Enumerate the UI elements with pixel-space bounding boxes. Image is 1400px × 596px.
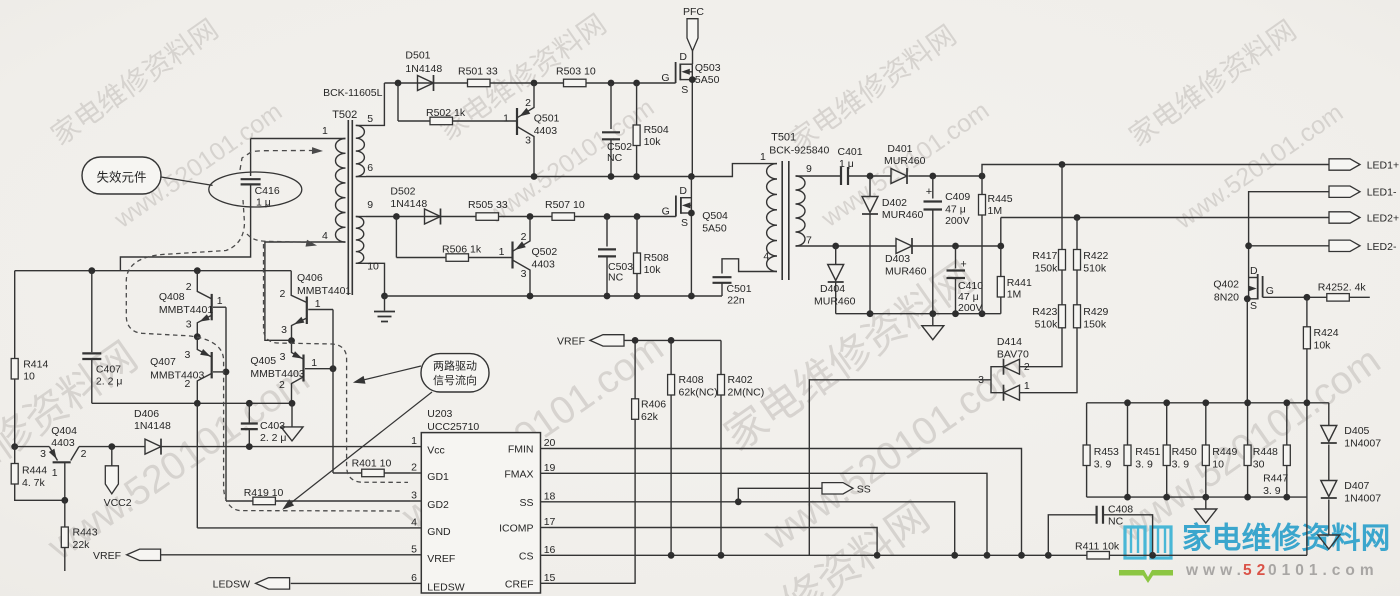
wire LED2+ line [1001, 217, 1329, 219]
wire ch1 bottom rail [366, 164, 777, 177]
resistor R502 [398, 107, 516, 125]
wire ch2 bottom rail [385, 295, 723, 297]
svg-text:4403: 4403 [534, 125, 558, 137]
wire CREF line [549, 420, 635, 584]
node T502 pin10 gnd [381, 293, 388, 300]
resistor R445 [979, 176, 1013, 314]
ground secondary [922, 314, 944, 340]
connector PFC [683, 6, 704, 51]
wire D414 cathodes [809, 367, 1003, 556]
resistor R425 [1318, 282, 1370, 302]
svg-text:5A50: 5A50 [702, 223, 727, 235]
node Q501 collector [531, 80, 538, 87]
connector VCC2 [104, 447, 132, 509]
wire SS line [549, 502, 955, 556]
wire CS line [549, 554, 1087, 556]
node C409 bottom [929, 310, 936, 317]
node D404 top [832, 243, 839, 250]
svg-text:Q404: Q404 [51, 425, 77, 437]
node D402 bottom [867, 310, 874, 317]
svg-text:R447: R447 [1263, 473, 1288, 485]
svg-text:MMBT4403: MMBT4403 [150, 370, 204, 382]
svg-text:R501 33: R501 33 [458, 66, 498, 78]
mosfet Q402 [1213, 265, 1274, 312]
node LED2- tap [1245, 242, 1252, 249]
svg-text:T502: T502 [332, 109, 357, 121]
svg-text:1N4148: 1N4148 [390, 198, 427, 210]
resistor R506 [396, 244, 511, 262]
wire Q402 gate [1263, 296, 1327, 298]
node bank t4 [1244, 399, 1251, 406]
diode D414 pin2 [1004, 359, 1030, 375]
svg-text:1: 1 [52, 467, 58, 479]
svg-text:两路驱动: 两路驱动 [433, 360, 477, 373]
svg-text:62k(NC): 62k(NC) [679, 387, 718, 399]
connector LED1+ [1329, 159, 1399, 172]
svg-text:G: G [662, 206, 670, 218]
node bank t1 [1124, 399, 1131, 406]
svg-text:3: 3 [40, 448, 46, 460]
resistor R424 [1303, 297, 1338, 403]
svg-text:D403: D403 [885, 253, 910, 265]
svg-text:2M(NC): 2M(NC) [728, 387, 765, 399]
transformer T501 label [769, 131, 829, 156]
svg-text:R424: R424 [1314, 327, 1339, 339]
wire GND column [196, 403, 198, 528]
svg-text:3. 9: 3. 9 [1172, 459, 1190, 471]
resistor R508 [634, 217, 669, 297]
wire GD1 line [333, 458, 410, 477]
svg-text:R441: R441 [1007, 277, 1032, 289]
capacitor C410 [947, 246, 984, 314]
node R445 top [979, 173, 986, 180]
wire LEDSW line [291, 582, 410, 584]
svg-text:FMIN: FMIN [508, 444, 534, 456]
svg-text:3: 3 [280, 351, 286, 363]
resistor R411 [1075, 541, 1307, 560]
resistor R507 [545, 199, 585, 220]
resistor R423 [1032, 270, 1065, 331]
capacitor C503 [598, 217, 633, 297]
wire Vcc mid [79, 446, 145, 448]
node Vcc-left [11, 443, 18, 450]
resistor R419 [244, 487, 410, 505]
wire T502 pin1 to C416 [251, 138, 346, 140]
node lower rail Q407 [194, 400, 201, 407]
svg-text:MMBT4401: MMBT4401 [297, 285, 351, 297]
svg-text:1: 1 [760, 151, 766, 163]
resistor R444 [11, 447, 65, 501]
wire Q408/Q407 base column [225, 307, 227, 501]
svg-text:2: 2 [1024, 361, 1030, 373]
resistor R417 [1032, 165, 1065, 275]
wire T502 pin4 [265, 242, 346, 340]
svg-text:R445: R445 [988, 193, 1013, 205]
pin 10 T502 [367, 261, 379, 273]
ic U203 pins [410, 435, 556, 593]
node C410 top [952, 243, 959, 250]
svg-text:G: G [661, 72, 669, 84]
svg-text:4: 4 [322, 230, 328, 242]
svg-text:MMBT4401: MMBT4401 [159, 304, 213, 316]
svg-text:MUR460: MUR460 [814, 296, 856, 308]
svg-text:VREF: VREF [557, 335, 585, 347]
node VREF2 b [668, 337, 675, 344]
svg-text:www.: www. [1185, 562, 1246, 579]
resistor R451 [1124, 403, 1161, 497]
svg-text:3: 3 [186, 319, 192, 331]
node D402 top [867, 173, 874, 180]
resistor R450 [1163, 403, 1197, 497]
node C403-Vcc [246, 443, 253, 450]
svg-text:16: 16 [544, 544, 556, 556]
svg-text:LED1+: LED1+ [1367, 160, 1399, 172]
svg-text:20: 20 [544, 437, 556, 449]
svg-text:1: 1 [499, 246, 505, 258]
svg-text:3. 9: 3. 9 [1094, 459, 1112, 471]
svg-text:R448: R448 [1253, 446, 1278, 458]
svg-text:Q402: Q402 [1213, 279, 1239, 291]
node bank t5 [1283, 399, 1290, 406]
svg-text:2: 2 [521, 231, 527, 243]
svg-text:1 μ: 1 μ [256, 197, 271, 209]
svg-text:10k: 10k [1314, 340, 1332, 352]
svg-text:D501: D501 [405, 50, 430, 62]
svg-text:47 μ: 47 μ [945, 204, 966, 216]
diode D414 pin1 [1004, 380, 1030, 401]
node D502 anode [393, 213, 400, 220]
svg-text:1: 1 [217, 295, 223, 307]
svg-text:2: 2 [81, 448, 87, 460]
svg-text:C409: C409 [945, 191, 970, 203]
svg-text:510k: 510k [1083, 263, 1107, 275]
connector VREF left [93, 549, 161, 562]
svg-text:D: D [1250, 265, 1258, 277]
svg-text:3: 3 [281, 324, 287, 336]
diode D401 [884, 143, 926, 184]
svg-text:C401: C401 [838, 146, 863, 158]
svg-text:R417: R417 [1032, 250, 1057, 262]
pin 4 T502 [322, 230, 328, 242]
dashed flow path left loop [126, 200, 403, 511]
svg-text:1M: 1M [1007, 289, 1022, 301]
svg-text:SS: SS [519, 497, 533, 509]
svg-text:R401 10: R401 10 [352, 458, 392, 470]
svg-text:Q408: Q408 [159, 291, 185, 303]
pin 6 T502 [367, 162, 373, 174]
svg-text:5: 5 [411, 543, 417, 555]
svg-text:3: 3 [184, 349, 190, 361]
svg-text:200V: 200V [945, 215, 970, 227]
node bank b5 [1283, 494, 1290, 501]
resistor R406 [632, 340, 667, 423]
svg-text:D: D [679, 185, 687, 197]
wire lower-left rail [92, 402, 292, 404]
resistor R429 [1074, 270, 1109, 331]
leader line to C416 [161, 177, 213, 185]
svg-text:1N4148: 1N4148 [134, 420, 171, 432]
node Q504 source [688, 210, 695, 217]
svg-text:1: 1 [503, 113, 509, 125]
svg-text:NC: NC [1108, 516, 1124, 528]
svg-text:30: 30 [1253, 459, 1265, 471]
pin 7 T501 [806, 235, 812, 247]
svg-text:1: 1 [1024, 380, 1030, 392]
svg-text:+: + [960, 259, 966, 271]
svg-text:9: 9 [367, 199, 373, 211]
svg-text:10k: 10k [644, 264, 662, 276]
svg-text:MMBT4403: MMBT4403 [250, 368, 304, 380]
svg-text:1: 1 [411, 435, 417, 447]
wire Q406/Q405 base column [332, 310, 334, 474]
svg-text:6: 6 [367, 162, 373, 174]
svg-text:VCC2: VCC2 [104, 497, 132, 509]
svg-text:3. 9: 3. 9 [1135, 459, 1153, 471]
svg-text:MUR460: MUR460 [882, 209, 924, 221]
svg-text:R450: R450 [1172, 446, 1197, 458]
svg-text:VREF: VREF [93, 550, 121, 562]
svg-text:NC: NC [607, 152, 623, 164]
svg-text:VREF: VREF [427, 553, 455, 565]
svg-text:R423: R423 [1032, 306, 1057, 318]
node Q407 base [223, 369, 230, 376]
diode D405 [1321, 403, 1381, 450]
resistor R414 [11, 271, 48, 447]
resistor R441 [997, 246, 1032, 314]
node Q504 source rail [688, 293, 695, 300]
svg-text:S: S [1250, 300, 1257, 312]
dashed flow path to T502 pin4 [247, 234, 317, 247]
node R445 bottom [979, 310, 986, 317]
svg-text:LED2-: LED2- [1367, 241, 1397, 253]
svg-text:Q405: Q405 [250, 355, 276, 367]
svg-text:R408: R408 [679, 374, 704, 386]
svg-text:10: 10 [367, 261, 379, 273]
svg-text:GD2: GD2 [427, 499, 449, 511]
transformer T501 primary winding [767, 164, 777, 272]
svg-text:510k: 510k [1035, 319, 1059, 331]
svg-text:R429: R429 [1083, 306, 1108, 318]
node CS a [668, 552, 675, 559]
svg-text:4. 7k: 4. 7k [22, 477, 46, 489]
node Q402 source [1244, 295, 1251, 302]
wire bank bottom rail [1087, 496, 1307, 498]
dashed flow path to T502 pin1 [240, 147, 323, 170]
svg-text:2: 2 [186, 281, 192, 293]
svg-text:C403: C403 [260, 420, 285, 432]
node Q404 emitter-R443 [61, 497, 68, 504]
svg-text:U203: U203 [427, 408, 452, 420]
svg-text:2. 2 μ: 2. 2 μ [96, 376, 122, 388]
resistor R448 [1244, 403, 1278, 497]
svg-text:R443: R443 [73, 527, 98, 539]
node Q503 source [689, 76, 696, 83]
svg-text:22k: 22k [73, 539, 91, 551]
svg-text:UCC25710: UCC25710 [427, 421, 479, 433]
transformer T502 winding 5-6 [356, 83, 385, 177]
svg-text:R503 10: R503 10 [556, 66, 596, 78]
svg-text:SS: SS [857, 483, 871, 495]
svg-text:Q407: Q407 [150, 356, 176, 368]
transformer T501 secondary winding [796, 176, 806, 246]
svg-text:R502 1k: R502 1k [426, 107, 466, 119]
wire bank top rail [1087, 402, 1329, 404]
svg-text:R507 10: R507 10 [545, 199, 585, 211]
connector LEDSW [213, 578, 290, 591]
svg-text:R506 1k: R506 1k [442, 244, 482, 256]
svg-text:5: 5 [367, 113, 373, 125]
transistor Q405 [250, 341, 333, 404]
wire GD2 line [226, 500, 253, 502]
transformer T502 core [348, 120, 352, 295]
annotation bubble 失效元件 [82, 157, 161, 194]
connector LED2+ [1329, 212, 1399, 225]
svg-text:8N20: 8N20 [1214, 292, 1239, 304]
watermark logo [1119, 522, 1391, 583]
svg-text:BCK-11605L: BCK-11605L [323, 87, 383, 99]
svg-text:150k: 150k [1083, 319, 1107, 331]
node CS g [1045, 552, 1052, 559]
diode D402 [862, 176, 923, 314]
svg-text:+: + [926, 186, 932, 198]
svg-text:BCK-925840: BCK-925840 [769, 145, 829, 157]
svg-text:0101.com: 0101.com [1268, 562, 1379, 579]
node bank b1 [1124, 494, 1131, 501]
svg-text:D404: D404 [820, 283, 845, 295]
wire main left rail [15, 270, 292, 272]
svg-text:1: 1 [322, 125, 328, 137]
mosfet Q504 [662, 177, 728, 297]
node CS b [718, 552, 725, 559]
svg-text:G: G [1266, 285, 1274, 297]
svg-text:S: S [681, 217, 688, 229]
svg-text:T501: T501 [771, 131, 796, 143]
connector LED2- [1329, 240, 1397, 253]
capacitor C407 [82, 267, 122, 403]
wire R424 to CS [1306, 403, 1308, 556]
node Q405 base [330, 365, 337, 372]
node Q502 collector [527, 213, 534, 220]
svg-text:D502: D502 [390, 185, 415, 197]
svg-text:200V: 200V [958, 302, 983, 314]
svg-text:18: 18 [544, 490, 556, 502]
svg-text:R411 10k: R411 10k [1075, 541, 1120, 553]
diode D404 [814, 246, 856, 314]
svg-text:R406: R406 [641, 399, 666, 411]
svg-text:6: 6 [411, 572, 417, 584]
svg-text:52: 52 [1243, 562, 1270, 579]
pin 4 T501 [763, 251, 769, 263]
svg-text:C407: C407 [96, 364, 121, 376]
diode D407 [1321, 445, 1381, 505]
wire LED1+ line [982, 165, 1329, 177]
node C410 bottom [952, 310, 959, 317]
resistor R503 [556, 66, 596, 87]
svg-text:信号流向: 信号流向 [433, 373, 477, 387]
svg-text:1: 1 [311, 357, 317, 369]
svg-text:2: 2 [525, 97, 531, 109]
node VREF2 a [632, 337, 639, 344]
capacitor C409 [924, 176, 971, 314]
wire CS up right [1306, 554, 1308, 556]
svg-text:R414: R414 [23, 359, 48, 371]
svg-text:S: S [681, 84, 688, 96]
transistor Q407 [150, 337, 226, 404]
capacitor C401 [838, 146, 863, 185]
ground below Q405 [281, 403, 303, 441]
capacitor C416 [120, 139, 279, 271]
svg-text:2: 2 [279, 379, 285, 391]
node C409 top [929, 173, 936, 180]
node R441 top [997, 243, 1004, 250]
svg-text:NC: NC [608, 272, 624, 284]
pin 1 T501 [760, 151, 766, 163]
resistor R447 [1263, 403, 1290, 497]
svg-text:Q406: Q406 [297, 272, 323, 284]
wire ch1 top rail [384, 82, 675, 84]
diode D501 [405, 50, 442, 91]
svg-text:D401: D401 [887, 143, 912, 155]
resistor R422 [1074, 218, 1109, 275]
wire LED2- line [1249, 245, 1329, 247]
wire LED1- line [1249, 192, 1329, 278]
svg-text:10: 10 [1212, 459, 1224, 471]
ground below D407 [1318, 500, 1340, 550]
wire D403 out [913, 245, 1001, 247]
svg-text:15: 15 [544, 572, 556, 584]
resistor R501 [458, 66, 498, 87]
capacitor C403 [241, 400, 287, 447]
svg-text:4403: 4403 [51, 437, 75, 449]
wire FMAX line [549, 473, 987, 555]
svg-text:LEDSW: LEDSW [427, 581, 464, 593]
resistor R408 [668, 340, 718, 555]
svg-text:LED2+: LED2+ [1367, 213, 1399, 225]
transistor Q408 [159, 271, 226, 337]
wire pin7 line [796, 245, 897, 247]
node C502 top [608, 80, 615, 87]
node bank b4 [1244, 494, 1251, 501]
node R422 top [1074, 214, 1081, 221]
svg-text:LED1-: LED1- [1367, 187, 1397, 199]
wire to R502 [397, 83, 399, 121]
node bank b2 [1163, 494, 1170, 501]
wire secondary bottom rail [836, 313, 1001, 315]
wire D401 out [909, 175, 983, 177]
dashed flow path right branch [264, 244, 409, 482]
node bank t3 [1202, 399, 1209, 406]
leader arrow to right dashed path [353, 366, 421, 384]
transformer T501 core [782, 161, 789, 280]
svg-text:C416: C416 [255, 185, 280, 197]
node VCC2 tap [108, 443, 115, 450]
node CS c [874, 552, 881, 559]
resistor R505 [468, 199, 508, 220]
resistor R504 [633, 83, 669, 177]
wire C401 to D401 [849, 175, 891, 177]
transformer T502 primary winding [336, 139, 346, 243]
svg-text:D407: D407 [1344, 480, 1369, 492]
svg-text:GD1: GD1 [427, 471, 449, 483]
svg-text:1 μ: 1 μ [839, 158, 854, 170]
svg-text:BAV70: BAV70 [997, 349, 1029, 361]
diode D403 [885, 238, 927, 278]
node C502 bottom [608, 173, 615, 180]
svg-text:9: 9 [806, 163, 812, 175]
node R417 top [1059, 161, 1066, 168]
svg-text:Q501: Q501 [534, 113, 560, 125]
ic U203 outline [421, 408, 540, 593]
